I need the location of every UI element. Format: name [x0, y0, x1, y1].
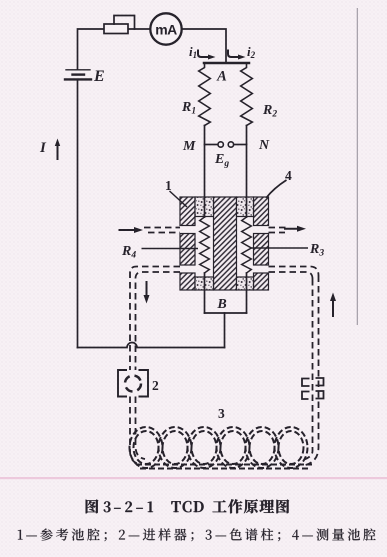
- svg-text:mA: mA: [155, 22, 177, 38]
- leader line for label 1: [170, 191, 188, 207]
- coil loop 2: [159, 427, 192, 468]
- wire R1 to block: [204, 126, 206, 218]
- filament R4 zigzag left cavity: [200, 217, 210, 273]
- svg-text:E: E: [93, 68, 105, 85]
- svg-text:A: A: [216, 69, 227, 85]
- column coil loops: [130, 427, 313, 469]
- block right wall lower segment: [254, 273, 269, 290]
- node A bar: [204, 62, 249, 65]
- block left wall middle segment: [180, 234, 195, 266]
- legend 1-参考池腔 2-进样器 3-色谱柱 4-测量池腔: [18, 528, 376, 541]
- injector rotor circle: [125, 376, 141, 392]
- coil bottom braid: [136, 464, 312, 466]
- flow arrow gas inlet: [55, 50, 336, 318]
- flow arrow up right riser: [330, 293, 336, 318]
- block right wall upper segment: [254, 197, 269, 226]
- leader line for R3: [251, 247, 308, 249]
- gas outlet tube right top: [269, 227, 289, 229]
- svg-text:i1: i1: [189, 44, 197, 60]
- battery E plates: [66, 69, 90, 71]
- svg-text:N: N: [258, 138, 270, 153]
- svg-text:I: I: [39, 140, 47, 156]
- leader line for label 4: [266, 180, 287, 198]
- tube injector to coil: [130, 397, 141, 465]
- current i2 hook arrow: [227, 50, 246, 60]
- coil loop 5: [246, 427, 279, 468]
- svg-text:3: 3: [218, 406, 225, 421]
- union fitting on right riser: [302, 378, 324, 399]
- svg-text:B: B: [216, 297, 226, 312]
- milliammeter mA: [150, 13, 181, 44]
- svg-text:R3: R3: [309, 242, 324, 259]
- coil loop 3: [188, 427, 221, 468]
- coil loop 6: [275, 427, 308, 468]
- pink horizontal rule (scan artifact): [0, 477, 387, 479]
- wire top-left horizontal: [78, 29, 105, 69]
- svg-text:R1: R1: [181, 100, 196, 117]
- tube block lower-right corner: [269, 267, 319, 276]
- block top bar stipple left: [195, 197, 214, 217]
- svg-text:M: M: [182, 139, 196, 154]
- svg-text:R2: R2: [262, 103, 277, 120]
- block bottom bar stipple right: [237, 277, 254, 290]
- detector block: [180, 197, 269, 290]
- filament R3 zigzag right cavity: [242, 217, 252, 273]
- gas tubes: dashed double lines: [130, 228, 319, 466]
- block bottom bar stipple left: [195, 277, 214, 290]
- resistor R1 zigzag: [199, 63, 211, 126]
- block center column: [214, 197, 237, 290]
- flow arrow down left tube: [144, 281, 150, 304]
- wire battery down left rail: [77, 79, 79, 347]
- svg-text:R4: R4: [121, 244, 136, 261]
- tube coil to right riser: [304, 276, 319, 466]
- grey page fold line right: [356, 8, 358, 325]
- terminal circle right: [228, 142, 233, 147]
- current i1 hook arrow: [197, 50, 216, 60]
- svg-text:Eg: Eg: [214, 152, 229, 169]
- terminal circle left: [218, 142, 223, 147]
- injector square (component 2): [118, 370, 148, 397]
- flow arrow gas outlet: [284, 226, 306, 232]
- block left wall upper segment: [180, 197, 195, 226]
- leader line for R4: [142, 248, 199, 250]
- block right wall middle segment: [254, 234, 269, 266]
- coil loop 4: [217, 427, 250, 468]
- current I arrow up: [55, 139, 60, 161]
- wire filament left down to B: [204, 273, 206, 313]
- block top bar stipple right: [237, 197, 254, 217]
- svg-text:i2: i2: [247, 44, 256, 60]
- node B bar: [205, 312, 247, 314]
- caption 图3-2-1 TCD工作原理图: [86, 499, 289, 513]
- svg-text:1: 1: [165, 178, 172, 193]
- svg-text:2: 2: [152, 378, 159, 393]
- rheostat tap bracket: [114, 16, 135, 30]
- wire B drop: [224, 313, 226, 348]
- resistor R2 zigzag: [241, 63, 253, 126]
- wire filament right down to B: [246, 273, 248, 313]
- svg-text:4: 4: [285, 168, 292, 183]
- resistor (rheostat) body: [104, 24, 128, 34]
- gas inlet tube left top: [144, 227, 180, 229]
- coil loop 1: [130, 427, 163, 468]
- wire R2 to block: [246, 126, 248, 218]
- M-N bar with Eg terminals: [205, 144, 218, 146]
- block left wall lower segment: [180, 273, 195, 290]
- wire bottom horizontal with hop: [78, 343, 225, 348]
- wire meter to corner and down to A: [182, 29, 227, 62]
- wire resistor to meter: [128, 28, 151, 30]
- tube block lower-left to injector: [130, 267, 180, 371]
